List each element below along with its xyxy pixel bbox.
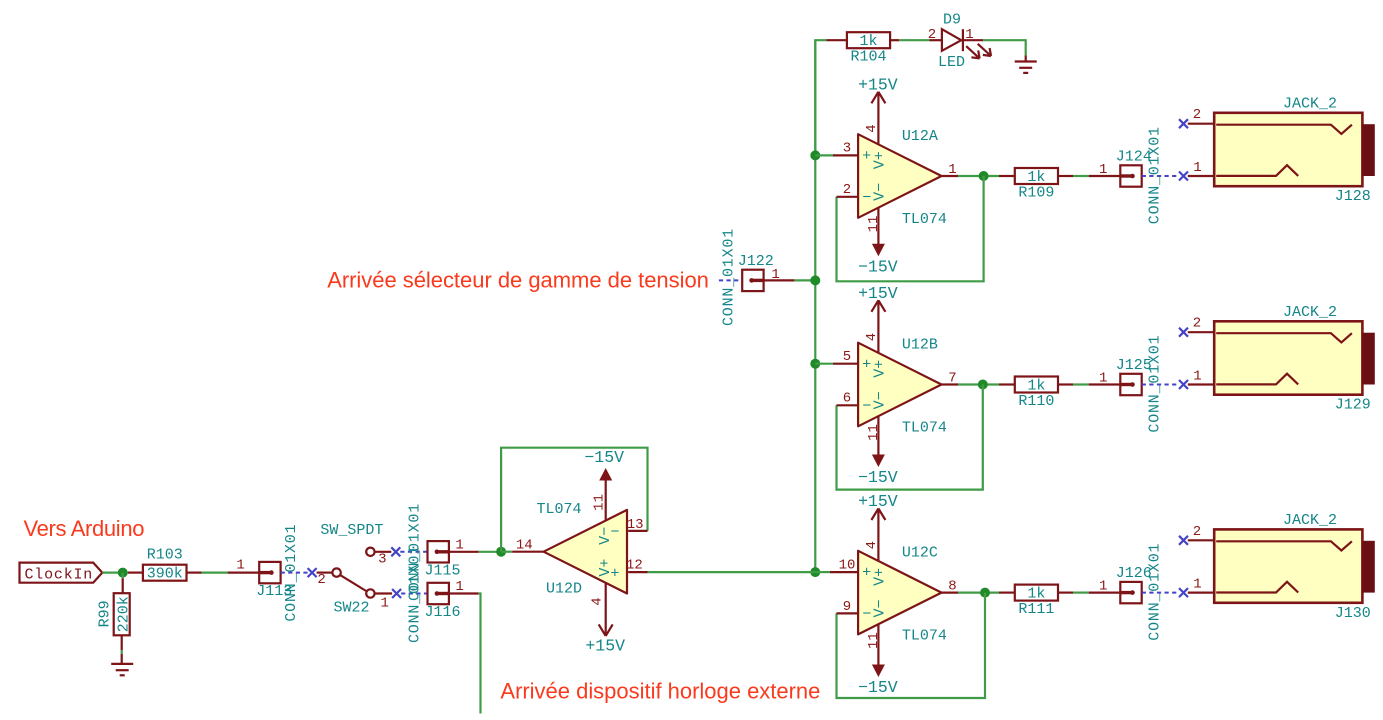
svg-text:−: −	[862, 606, 871, 623]
wire (pin segment)	[942, 383, 959, 385]
wire (pin segment)	[999, 591, 1015, 593]
wire (pin segment)	[121, 654, 123, 664]
no-connect X on pin 1	[1179, 380, 1188, 389]
svg-text:1: 1	[1099, 162, 1107, 178]
connector J122 (CONN_01X01)	[721, 228, 774, 326]
svg-text:1k: 1k	[859, 33, 877, 50]
wire	[1073, 383, 1089, 385]
wire	[837, 385, 983, 490]
wire (pin segment)	[628, 571, 647, 573]
no-connect X at SW22 pin 1	[392, 589, 401, 598]
connector J113 (CONN_01X01)	[256, 524, 300, 622]
wire	[122, 573, 124, 579]
svg-text:R111: R111	[1018, 601, 1054, 618]
wire (pin segment)	[1058, 383, 1073, 385]
power +15V (U12A)	[858, 75, 898, 144]
wire (pin segment)	[1089, 591, 1121, 593]
svg-text:2: 2	[1193, 316, 1201, 332]
svg-text:JACK_2: JACK_2	[1283, 96, 1337, 113]
svg-text:−15V: −15V	[858, 468, 898, 487]
svg-text:+: +	[862, 148, 871, 165]
jack J130 (JACK_2)	[1179, 512, 1375, 622]
wire	[1073, 591, 1089, 593]
pin 1 of J129	[1188, 383, 1214, 385]
op-amp U12B (TL074)	[843, 333, 957, 441]
svg-text:2: 2	[1193, 107, 1201, 123]
svg-text:1: 1	[1099, 579, 1107, 595]
svg-text:TL074: TL074	[902, 211, 947, 228]
connector J116 (CONN_01X01)	[407, 545, 461, 643]
svg-text:J122: J122	[738, 253, 774, 270]
resistor R104	[847, 32, 890, 65]
connector J124 (CONN_01X01)	[1116, 126, 1164, 224]
wire (pin segment)	[449, 592, 479, 594]
svg-text:R110: R110	[1018, 393, 1054, 410]
svg-text:TL074: TL074	[902, 419, 947, 436]
wire (pin segment)	[999, 175, 1015, 177]
svg-text:V+: V+	[872, 568, 889, 586]
svg-text:JACK_2: JACK_2	[1283, 512, 1337, 529]
ground (LED branch)	[1015, 62, 1037, 73]
svg-text:+15V: +15V	[858, 75, 898, 94]
wire (pin segment)	[512, 551, 543, 553]
svg-text:2: 2	[1193, 524, 1201, 540]
svg-text:1: 1	[380, 596, 388, 612]
wire	[479, 551, 502, 553]
svg-text:+: +	[862, 357, 871, 374]
wire (pin segment)	[122, 578, 124, 593]
wire	[1073, 175, 1089, 177]
svg-text:CONN_01X01: CONN_01X01	[407, 545, 424, 643]
wire (pin segment)	[890, 39, 899, 41]
resistor R110	[1015, 377, 1058, 411]
svg-text:−15V: −15V	[858, 678, 898, 697]
junction (U12A output)	[979, 171, 989, 181]
no-connect X on pin 2	[1179, 536, 1188, 545]
wire (pin segment)	[830, 571, 858, 573]
svg-text:+: +	[862, 565, 871, 582]
wire	[202, 571, 228, 573]
junction (ClockIn node)	[118, 568, 128, 578]
wire	[899, 39, 929, 41]
dashed no-connect link SW22 to J116	[401, 593, 427, 595]
junction (U12B output)	[978, 380, 988, 390]
svg-text:V+: V+	[872, 360, 889, 378]
dashed stub left of J122	[719, 279, 742, 281]
svg-text:SW_SPDT: SW_SPDT	[320, 522, 383, 539]
wire	[814, 40, 816, 572]
svg-text:LED: LED	[938, 54, 965, 71]
svg-text:JACK_2: JACK_2	[1283, 304, 1337, 321]
junction (J115 / U12D pin 14 / feedback)	[496, 547, 506, 557]
wire (pin segment)	[833, 154, 858, 156]
wire (pin segment)	[999, 383, 1015, 385]
power +15V (U12C)	[858, 492, 898, 561]
pin 1 of J130	[1188, 591, 1214, 593]
junction (bus / U12A pin 3)	[810, 150, 820, 160]
svg-text:V−: V−	[597, 527, 614, 545]
wire (pin segment)	[837, 404, 859, 406]
power -15V (U12A)	[858, 208, 898, 277]
wire (pin segment)	[187, 571, 202, 573]
wire	[815, 363, 833, 365]
wire (pin segment)	[121, 635, 123, 650]
svg-text:TL074: TL074	[902, 627, 947, 644]
wire	[958, 591, 999, 593]
svg-text:R99: R99	[97, 600, 114, 627]
wire	[121, 650, 123, 654]
wire (pin segment)	[1058, 591, 1073, 593]
wire (pin segment)	[228, 571, 260, 573]
svg-text:V−: V−	[872, 391, 889, 409]
svg-text:+15V: +15V	[858, 284, 898, 303]
wire (pin segment)	[1089, 175, 1121, 177]
svg-text:V−: V−	[872, 599, 889, 617]
wire	[837, 593, 986, 698]
svg-text:2: 2	[928, 27, 936, 43]
wire	[794, 279, 815, 281]
svg-text:220k: 220k	[115, 596, 132, 632]
no-connect X on pin 1	[1179, 172, 1188, 181]
wire (pin segment)	[1025, 55, 1027, 61]
wire	[102, 571, 128, 573]
svg-text:R104: R104	[850, 49, 886, 66]
wire (pin segment)	[930, 39, 942, 41]
wire	[815, 154, 833, 156]
svg-text:1k: 1k	[1027, 377, 1045, 394]
resistor R99	[97, 593, 133, 635]
svg-text:U12C: U12C	[902, 545, 938, 562]
resistor R111	[1015, 585, 1058, 619]
connector J126 (CONN_01X01)	[1116, 543, 1164, 641]
jack J128 (JACK_2)	[1179, 96, 1375, 206]
svg-text:J129: J129	[1335, 397, 1371, 414]
junction (bus / J122)	[810, 275, 820, 285]
op-amp U12C (TL074)	[839, 541, 957, 649]
wire (pin segment)	[764, 279, 795, 281]
wire (pin segment)	[942, 175, 959, 177]
op-amp U12A (TL074)	[843, 124, 957, 232]
svg-text:+15V: +15V	[858, 492, 898, 511]
wire	[958, 383, 999, 385]
wire	[815, 40, 826, 155]
svg-text:SW22: SW22	[334, 599, 370, 616]
wire (pin segment)	[942, 591, 959, 593]
svg-text:1: 1	[1193, 160, 1201, 176]
power -15V (U12C)	[858, 624, 898, 697]
svg-text:−: −	[862, 398, 871, 415]
power -15V (U12B)	[858, 416, 898, 487]
svg-text:U12D: U12D	[546, 581, 582, 598]
svg-text:D9: D9	[943, 12, 961, 29]
svg-text:CONN_01X01: CONN_01X01	[721, 228, 738, 326]
wire (pin segment)	[826, 39, 846, 41]
wire	[958, 175, 999, 177]
wire (pin segment)	[128, 571, 143, 573]
no-connect X at SW22 pin 2	[308, 568, 317, 577]
junction (bus / U12B pin 5)	[810, 359, 820, 369]
pin 2 of J128	[1188, 123, 1214, 125]
dashed no-connect link J125 to J129	[1142, 384, 1179, 386]
wire (pin segment)	[837, 196, 859, 198]
svg-text:10: 10	[839, 557, 856, 573]
power +15V (U12B)	[858, 284, 898, 353]
wire (pin segment)	[628, 530, 647, 532]
junction (bus / U12C pin 10)	[810, 567, 820, 577]
LED D9	[928, 12, 991, 72]
wire	[479, 594, 481, 714]
wire	[815, 571, 830, 573]
pin 2 of J130	[1188, 539, 1214, 541]
op-amp U12D (TL074)	[516, 494, 644, 606]
svg-text:ClockIn: ClockIn	[25, 566, 94, 583]
wire (pin segment)	[837, 612, 859, 614]
dashed no-connect link J113 to SW22	[281, 572, 308, 574]
global label ClockIn	[20, 563, 103, 584]
svg-text:V−: V−	[872, 183, 889, 201]
svg-text:R103: R103	[147, 547, 183, 564]
connector J115 (CONN_01X01)	[407, 503, 461, 601]
wire	[501, 448, 647, 552]
power +15V (U12D)	[585, 583, 625, 655]
resistor R103	[143, 547, 187, 583]
pin 2 of J129	[1188, 331, 1214, 333]
svg-text:1k: 1k	[1027, 169, 1045, 186]
svg-text:−: −	[862, 190, 871, 207]
dashed no-connect link J126 to J130	[1142, 592, 1179, 594]
wire (pin segment)	[963, 39, 983, 41]
dashed no-connect link SW22 to J115	[400, 551, 427, 553]
no-connect X on pin 1	[1179, 588, 1188, 597]
switch SW22 (SW_SPDT)	[317, 522, 393, 616]
svg-text:1: 1	[1193, 577, 1201, 593]
wire	[501, 551, 512, 553]
svg-text:Vers Arduino: Vers Arduino	[24, 516, 145, 541]
ground (R99)	[111, 664, 133, 675]
svg-text:−15V: −15V	[584, 448, 624, 467]
svg-text:J128: J128	[1335, 188, 1371, 205]
svg-text:V+: V+	[872, 151, 889, 169]
wire (pin segment)	[833, 363, 858, 365]
junction (U12C output)	[980, 588, 990, 598]
pin 1 of J128	[1188, 175, 1214, 177]
wire (pin segment)	[1058, 175, 1073, 177]
svg-text:R109: R109	[1018, 185, 1054, 202]
wire (pin segment)	[449, 551, 479, 553]
svg-text:1: 1	[1193, 369, 1201, 385]
svg-text:1k: 1k	[1027, 586, 1045, 603]
svg-text:−15V: −15V	[858, 258, 898, 277]
svg-text:3: 3	[378, 552, 386, 568]
svg-text:+: +	[610, 565, 619, 582]
svg-text:1: 1	[1099, 370, 1107, 386]
no-connect X on pin 2	[1179, 328, 1188, 337]
svg-text:U12A: U12A	[902, 128, 938, 145]
svg-text:U12B: U12B	[902, 337, 938, 354]
svg-text:Arrivée dispositif horloge ext: Arrivée dispositif horloge externe	[500, 679, 820, 704]
wire	[837, 176, 984, 281]
jack J129 (JACK_2)	[1179, 304, 1375, 414]
svg-text:TL074: TL074	[537, 501, 582, 518]
svg-text:+15V: +15V	[585, 636, 625, 655]
wire (pin segment)	[1089, 383, 1121, 385]
svg-text:J130: J130	[1335, 605, 1371, 622]
svg-text:1: 1	[236, 558, 244, 574]
svg-text:2: 2	[317, 572, 325, 588]
dashed no-connect link J124 to J128	[1142, 175, 1179, 177]
power -15V (U12D)	[584, 448, 624, 521]
no-connect X at SW22 pin 3	[391, 547, 400, 556]
wire	[983, 40, 1025, 55]
svg-text:J116: J116	[425, 604, 461, 621]
svg-text:390k: 390k	[147, 566, 183, 583]
connector J125 (CONN_01X01)	[1116, 335, 1164, 433]
wire	[648, 571, 816, 573]
svg-text:J115: J115	[425, 562, 461, 579]
svg-text:Arrivée sélecteur de gamme de: Arrivée sélecteur de gamme de tension	[327, 268, 709, 293]
resistor R109	[1015, 168, 1058, 202]
svg-text:4: 4	[589, 597, 605, 605]
no-connect X on pin 2	[1179, 119, 1188, 128]
